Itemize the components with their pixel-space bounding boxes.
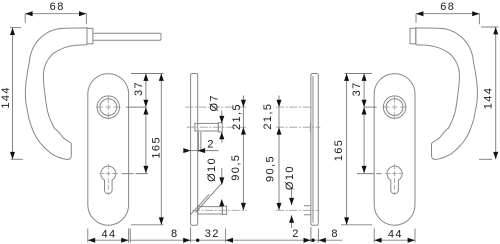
right handle hole crosshair	[394, 96, 396, 120]
dim 90,5 side view 1	[230, 154, 246, 211]
keyhole euro profile	[101, 166, 116, 194]
right backplate (stadium)	[374, 74, 415, 226]
handle hole crosshair horizontal to dim line	[96, 106, 121, 108]
right lever handle grip outline	[416, 28, 478, 160]
svg-text:144: 144	[0, 86, 12, 109]
handle hole crosshair vertical	[107, 96, 109, 120]
top screw centerline	[187, 126, 247, 128]
side plate	[191, 74, 198, 226]
svg-text:37: 37	[133, 81, 145, 96]
bottom dim line 8 / 32	[130, 227, 342, 243]
svg-text:2: 2	[292, 228, 300, 240]
svg-text:21,5: 21,5	[262, 103, 274, 130]
right unlabeled dim	[362, 107, 367, 173]
backplate (stadium)	[88, 74, 129, 226]
svg-text:68: 68	[440, 1, 455, 13]
svg-text:90,5: 90,5	[230, 154, 242, 181]
svg-text:44: 44	[388, 229, 403, 241]
dim 68 top right	[416, 1, 480, 24]
svg-text:Ø10: Ø10	[284, 165, 296, 190]
dim 90,5 side view 2	[265, 155, 282, 210]
unlabeled dim handle center to key center	[143, 107, 148, 173]
right neck end line	[415, 27, 417, 45]
handle centerline	[276, 106, 311, 108]
spindle square shaft	[93, 33, 161, 40]
dim 44 bottom right	[374, 229, 415, 243]
bottom dims 2 and 8	[292, 227, 339, 243]
handle hole inner circle	[100, 99, 117, 116]
dim 68 top left	[25, 1, 86, 24]
handle neck end line	[86, 27, 88, 45]
top screw hole cross tick	[309, 122, 311, 132]
keyhole crosshair horizontal	[100, 173, 118, 175]
svg-text:44: 44	[101, 229, 116, 241]
dim 165 right plate	[333, 74, 372, 225]
top fixing screw	[195, 123, 218, 131]
svg-text:21,5: 21,5	[231, 103, 243, 130]
handle height centerline across side view	[185, 106, 246, 108]
dim Ø7	[209, 94, 225, 142]
svg-text:37: 37	[351, 81, 363, 96]
side plate 2	[311, 74, 318, 226]
svg-text:90,5: 90,5	[265, 155, 277, 182]
dim 21,5 side view 2	[262, 96, 282, 211]
bolt hole centerline	[276, 209, 320, 211]
dim 2 screw neck	[183, 138, 218, 153]
top screw hole centerline	[276, 126, 320, 128]
oblique extension lines for Ø10	[196, 182, 224, 213]
handle hole outer circle	[97, 96, 119, 118]
right handle hole circles	[383, 96, 405, 118]
dim 37 right plate	[345, 74, 372, 108]
dim Ø10 side view 2	[284, 165, 296, 228]
dim 37 left plate	[131, 74, 164, 108]
dim Ø10 side view 1	[206, 157, 224, 206]
lever handle grip outline	[25, 28, 87, 160]
dim 144 left	[0, 28, 23, 160]
bottom bolt hole walls	[304, 206, 311, 215]
bolt centerline	[192, 209, 247, 211]
svg-text:165: 165	[333, 139, 345, 162]
bottom fixing bolt	[198, 207, 223, 214]
dim 144 right	[479, 27, 498, 159]
svg-text:32: 32	[205, 228, 220, 240]
keyhole center extension dashes to dim line	[122, 173, 148, 175]
dim 44 bottom left	[88, 229, 129, 243]
right keyhole	[387, 166, 402, 194]
svg-text:8: 8	[331, 228, 339, 240]
right ferrule	[410, 28, 416, 44]
dim 165 left plate	[131, 74, 164, 225]
screw shoulder ticks for dim 2	[198, 132, 201, 152]
inner wall line	[312, 76, 314, 223]
keyhole crosshair vertical	[107, 164, 109, 195]
svg-text:8: 8	[171, 228, 179, 240]
svg-text:Ø7: Ø7	[209, 94, 221, 111]
svg-text:144: 144	[483, 87, 495, 110]
svg-text:Ø10: Ø10	[206, 157, 218, 182]
svg-text:2: 2	[207, 138, 215, 150]
svg-text:165: 165	[151, 136, 163, 159]
dim 21,5 side view 1	[231, 96, 246, 211]
ferrule collar	[87, 28, 93, 44]
svg-text:68: 68	[50, 1, 65, 13]
